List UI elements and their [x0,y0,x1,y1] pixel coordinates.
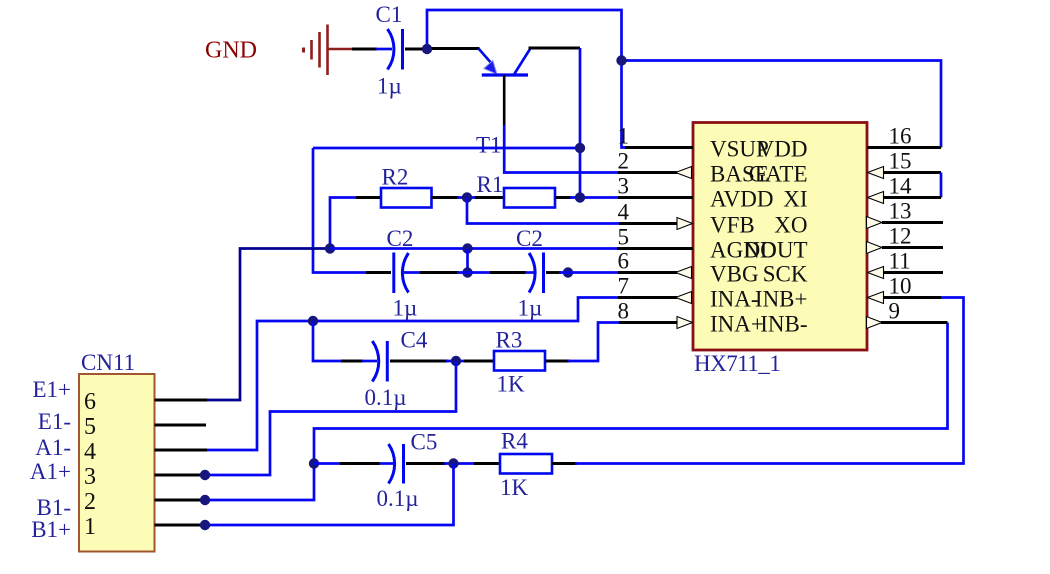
pin 8 wire [619,321,678,324]
wire midpoint to C2b [490,271,526,274]
wire node to emitter [426,47,480,50]
wire R2 left lead [330,198,358,249]
resistor R3 [494,351,545,371]
wire junction to R3 [464,360,494,363]
CN11 pin 2 junction [200,495,210,505]
svg-text:0.1µ: 0.1µ [365,385,407,410]
pin 4 triangle [677,218,693,230]
svg-text:GND: GND [205,38,257,64]
svg-text:1µ: 1µ [518,296,543,321]
svg-text:9: 9 [889,299,901,324]
junction C5-R4 [448,458,458,468]
wire pins 15-14 bracket [940,173,943,198]
svg-text:XI: XI [783,187,807,212]
svg-text:R3: R3 [496,328,523,353]
pin 13 triangle [867,217,883,229]
svg-text:1K: 1K [497,372,526,397]
pin 2 triangle [676,167,692,179]
CN11 pin 1 wire [155,524,206,527]
wire C4 to junction [390,360,448,363]
svg-text:VFB: VFB [710,213,755,238]
junction R2-R1 [462,192,472,202]
junction after C2b [563,267,573,277]
svg-text:5: 5 [618,225,630,250]
wire collector horizontal [529,47,581,50]
pin 10 triangle [868,292,884,304]
svg-text:1: 1 [618,124,630,149]
svg-text:10: 10 [889,274,912,299]
CN11 pin 1 junction [200,520,210,530]
wire C1 left pin stub [376,48,392,51]
pin 2 wire [618,171,677,174]
wire C5 to junction [406,462,446,465]
svg-text:INA+: INA+ [710,312,764,337]
wire C1 to node [405,48,428,51]
svg-text:1µ: 1µ [377,74,402,99]
svg-text:1µ: 1µ [393,296,418,321]
wire C5 left pin stub [379,462,393,465]
pin 14 wire [882,196,941,199]
wire C5 left lead [314,462,342,465]
wire C2a to midpoint [404,271,421,274]
pin 12 wire [882,246,943,249]
wire junction to R1 [475,196,504,199]
wire T1 net horizontal [313,147,580,150]
wire C5 node to pin 9 loop [314,323,948,464]
wire across C4-R3 junction [446,360,466,363]
wire INA- net from A1- [206,298,618,451]
pin 3 wire [618,196,693,199]
wire to pin 6 [559,271,618,274]
CN11 pin 2 wire [155,499,206,502]
wire into R2 [356,196,381,199]
wire VFB branch down to pin 4 [467,198,619,224]
svg-text:INB-: INB- [760,312,807,337]
junction E1+ R2 tap [325,243,335,253]
CN11 pin 5 wire [155,424,207,427]
svg-text:A1-: A1- [35,435,71,460]
svg-text:2: 2 [618,149,630,174]
svg-text:5: 5 [84,414,96,440]
wire base black [503,75,506,125]
pin 7 wire [618,296,677,299]
svg-text:T1: T1 [476,133,502,158]
svg-text:1: 1 [84,514,96,540]
pin 5 wire [617,247,693,250]
svg-text:4: 4 [618,200,630,225]
svg-text:15: 15 [889,149,912,174]
pin 1 wire [625,146,693,149]
wire top loop over transistor [427,10,622,61]
capacitor C2 second [529,253,544,294]
svg-text:VBG: VBG [710,262,759,287]
wire R1 to collector node [555,196,572,199]
wire E1+ net from CN11 pin 6 [206,249,331,401]
pin 14 triangle [868,192,884,204]
svg-text:AVDD: AVDD [710,187,773,212]
CN11 pin 6 wire [155,399,208,402]
pin 6 wire [618,271,677,274]
wire R3 to pin 8 [568,323,619,362]
svg-text:7: 7 [618,274,630,299]
wire GND to C1 [352,48,377,51]
junction VDD node [616,55,626,65]
connector CN11 box [79,374,155,552]
svg-text:C4: C4 [401,328,428,353]
svg-text:13: 13 [889,199,912,224]
svg-text:0.1µ: 0.1µ [377,486,419,511]
wire AGND row to pin 5 [330,247,617,250]
wire into C4 [341,360,363,363]
svg-text:E1+: E1+ [32,377,71,402]
wire into C2a [366,271,391,274]
CN11 pin 3 wire [155,474,206,477]
wire C2b to dot [546,271,561,274]
svg-text:6: 6 [84,389,96,415]
wire A1+ net to C4-R3 junction [205,361,456,475]
wire C4 branch down [313,321,343,361]
pin 11 wire [882,271,943,274]
svg-text:A1+: A1+ [30,459,71,484]
wire AGND to C2 midpoint [466,249,469,273]
svg-text:4: 4 [84,439,96,465]
svg-text:GATE: GATE [749,162,808,187]
wire across R2-R1 junction [457,196,477,199]
capacitor C4 [372,341,387,382]
wire R3 output black [545,360,570,363]
pin 10 wire [882,296,941,299]
pin 15 wire [882,171,941,174]
pin 9 triangle [867,317,883,329]
wire C4 left pin stub [362,360,377,363]
svg-text:1K: 1K [500,475,529,500]
svg-text:INB+: INB+ [755,287,808,312]
wire base to pin 2 [504,125,618,173]
transistor T1 [479,49,531,76]
svg-text:C2: C2 [516,226,543,251]
wire R4 output black [552,462,577,465]
wire B1- net up to C5 [205,464,314,501]
wire collector vertical [579,48,582,198]
capacitor C1 [388,29,403,70]
wire VDD node to pin 16 [622,61,942,148]
wire VDD node down to pin 1 [622,61,627,148]
junction C4 tap [308,316,318,326]
wire R4 to pin 10 loop [575,298,964,464]
pin 7 triangle [676,292,692,304]
pin 9 wire [881,321,948,324]
svg-text:XO: XO [774,213,807,238]
capacitor C5 [389,444,404,484]
junction C4-R3 [451,356,461,366]
svg-text:3: 3 [618,174,630,199]
svg-text:DOUT: DOUT [744,238,808,263]
CN11 pin 3 junction [200,470,210,480]
svg-text:VDD: VDD [758,137,808,162]
pin 6 triangle [676,267,692,279]
svg-text:R2: R2 [382,165,409,190]
capacitor C2 first [394,253,409,294]
svg-text:8: 8 [618,299,630,324]
svg-text:16: 16 [889,124,912,149]
wire B1+ net to C5-R4 junction [205,464,454,526]
svg-text:2: 2 [84,489,96,515]
pin 16 wire [867,146,941,149]
wire R2 to junction [432,196,460,199]
svg-text:14: 14 [889,174,913,199]
svg-text:INA-: INA- [710,287,759,312]
pin 11 triangle [868,267,884,279]
junction AGND tap upper [462,243,472,253]
resistor R1 [504,188,555,208]
wire across midpoint [457,271,492,274]
svg-text:HX711_1: HX711_1 [694,351,780,376]
svg-text:B1+: B1+ [31,517,71,542]
pin 13 wire [882,221,943,224]
wire across C5-R4 junction [444,462,476,465]
svg-text:C2: C2 [387,226,414,251]
junction R1 collector node [575,192,585,202]
svg-text:R4: R4 [501,429,528,454]
svg-text:6: 6 [618,249,630,274]
wire T1 net vertical down to C2 row [313,148,368,273]
svg-text:3: 3 [84,464,96,490]
svg-text:C1: C1 [376,2,403,27]
resistor R2 [381,188,432,208]
ground [304,25,353,76]
pin 15 triangle [868,167,884,179]
resistor R4 [500,454,552,474]
pin 4 wire [619,222,678,225]
wire across collector node to pin 3 [570,196,618,199]
IC U1 HX711 box [693,123,867,351]
pin 8 triangle [677,317,693,329]
svg-text:C5: C5 [411,430,438,455]
junction at C1 output node [422,44,432,54]
pin 12 triangle [867,242,883,254]
wire into C5 [340,462,380,465]
svg-text:CN11: CN11 [81,350,135,375]
junction C5 left [309,458,319,468]
svg-text:R1: R1 [477,172,504,197]
junction T1 net and collector [575,143,585,153]
junction C2 midpoint [462,267,472,277]
CN11 pin 4 wire [155,449,208,452]
svg-text:E1-: E1- [38,409,71,434]
svg-text:12: 12 [889,224,912,249]
svg-text:SCK: SCK [763,262,808,287]
svg-text:11: 11 [889,249,911,274]
wire junction to R4 [474,462,500,465]
